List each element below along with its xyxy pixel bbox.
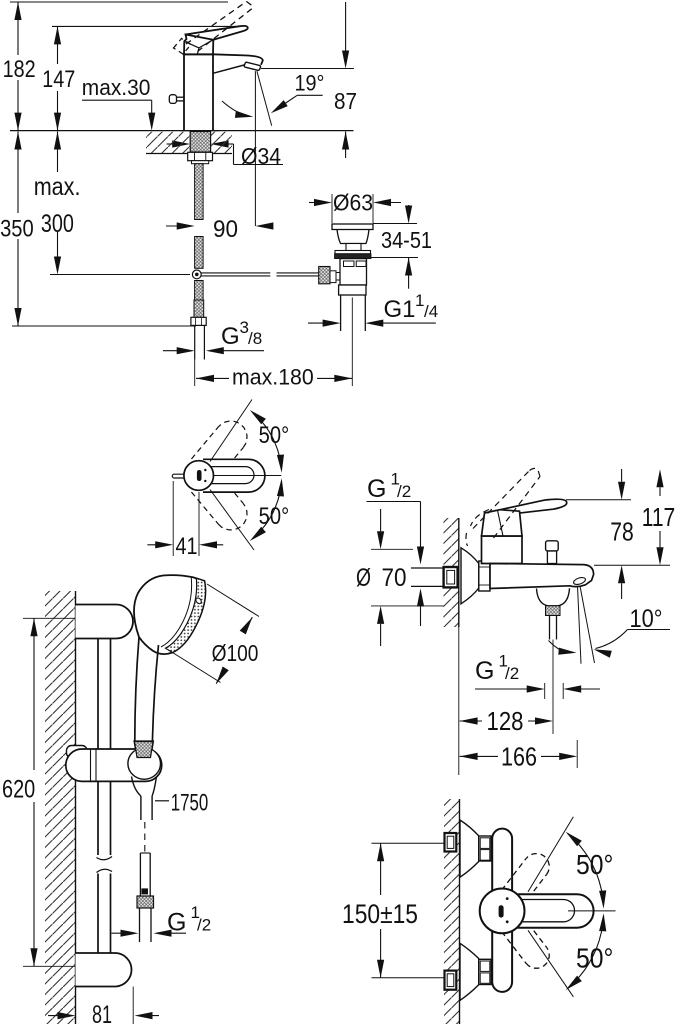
svg-text:50°: 50° [576, 849, 613, 880]
svg-text:/8: /8 [248, 329, 262, 348]
svg-text:166: 166 [501, 742, 537, 772]
svg-text:34-51: 34-51 [381, 227, 432, 253]
svg-text:/4: /4 [424, 302, 438, 321]
svg-text:/2: /2 [505, 664, 519, 683]
svg-text:max.180: max.180 [232, 365, 314, 390]
svg-text:620: 620 [2, 776, 35, 804]
svg-text:G1: G1 [384, 296, 416, 323]
svg-text:81: 81 [92, 1001, 112, 1024]
svg-text:/2: /2 [397, 482, 411, 501]
svg-text:350: 350 [0, 216, 34, 243]
svg-text:182: 182 [3, 56, 36, 83]
svg-text:147: 147 [42, 66, 75, 93]
svg-text:150±15: 150±15 [342, 899, 418, 929]
svg-text:50°: 50° [259, 422, 290, 449]
svg-text:1750: 1750 [171, 789, 209, 816]
svg-text:Ø34: Ø34 [241, 143, 281, 169]
svg-text:78: 78 [610, 516, 634, 546]
svg-text:G: G [221, 323, 240, 350]
svg-text:max.: max. [34, 173, 81, 201]
svg-text:Ø: Ø [356, 564, 371, 592]
svg-text:Ø63: Ø63 [333, 190, 373, 216]
svg-text:10°: 10° [630, 605, 663, 633]
svg-text:max.30: max.30 [82, 75, 151, 100]
svg-text:G: G [367, 475, 386, 503]
svg-text:300: 300 [41, 210, 74, 238]
svg-text:G: G [475, 657, 494, 685]
svg-text:50°: 50° [576, 943, 613, 974]
svg-text:/2: /2 [197, 916, 211, 935]
svg-text:41: 41 [176, 533, 198, 560]
svg-text:87: 87 [334, 88, 357, 114]
svg-text:128: 128 [487, 706, 524, 736]
svg-text:Ø100: Ø100 [212, 640, 259, 666]
svg-text:90: 90 [213, 216, 238, 243]
svg-text:50°: 50° [259, 503, 290, 530]
svg-text:19°: 19° [295, 71, 325, 96]
svg-text:117: 117 [642, 502, 676, 532]
svg-text:70: 70 [382, 564, 407, 592]
